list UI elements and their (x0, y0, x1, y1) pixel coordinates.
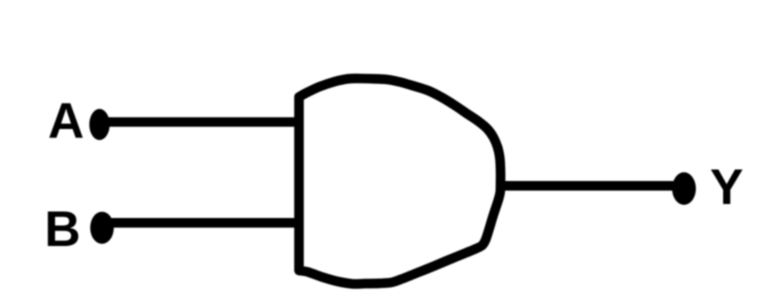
svg-text:B: B (45, 201, 81, 257)
node A terminal dot (89, 109, 109, 140)
AND gate U1 body (299, 78, 501, 283)
svg-text:Y: Y (710, 159, 743, 215)
node Y terminal dot (672, 172, 696, 205)
svg-text:A: A (48, 93, 84, 149)
wire A (input A to gate) (99, 117, 300, 127)
wire B (input B to gate) (102, 218, 300, 228)
wire Y (gate output) (500, 181, 684, 191)
node B terminal dot (90, 212, 114, 244)
